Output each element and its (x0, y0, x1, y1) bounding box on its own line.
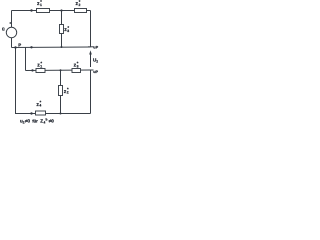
wire top rail (12, 10, 91, 12)
terminal tick upper output (88, 46, 94, 48)
polarity dot above source (9, 22, 11, 24)
node dot top rail Z3 junction (60, 9, 62, 11)
svg-text:≠0: ≠0 (49, 119, 55, 124)
wire node P drop to bottom rail (15, 48, 17, 114)
resistor Z1' (second rail left box) (36, 69, 45, 73)
resistor Z1* (top left box) (37, 9, 50, 13)
svg-text:für: für (32, 119, 38, 124)
node dot second rail (31, 69, 33, 71)
svg-text:*: * (40, 0, 42, 4)
svg-text:b: b (46, 117, 48, 121)
svg-text:P: P (96, 70, 99, 74)
svg-text:ü: ü (2, 26, 5, 31)
resistor Z2' (vertical box lower) (59, 86, 63, 96)
wire middle rail (12, 46, 91, 49)
node dot bottom rail Z2 junction (60, 113, 62, 115)
wire bottom rail (15, 113, 91, 115)
svg-text:P: P (18, 42, 21, 47)
svg-text:*: * (77, 60, 79, 65)
svg-text:2: 2 (96, 60, 98, 64)
terminal tick lower output (88, 69, 94, 71)
wire right side upper vertical (90, 11, 92, 47)
node dot bottom rail left (30, 112, 32, 114)
node dot top rail left (30, 9, 32, 11)
wire source bottom lead (11, 38, 13, 48)
wire second rail (26, 69, 91, 72)
svg-text:≠0: ≠0 (25, 119, 31, 124)
wire Z3* branch vertical (61, 11, 63, 48)
wire source top lead (11, 11, 13, 28)
wire Z2* branch vertical (60, 70, 62, 114)
svg-text:P: P (96, 45, 99, 49)
node dot middle rail Z3 junction (61, 46, 63, 48)
source U1 circle (6, 27, 16, 37)
resistor Z3' (second rail right box) (72, 69, 81, 73)
wire drop to second rail (25, 48, 27, 71)
voltage arrow U2 (89, 50, 92, 67)
node P dot (14, 46, 16, 48)
node dot middle rail (30, 46, 32, 48)
resistor Z3* (vertical shunt box) (60, 25, 64, 34)
svg-text:*: * (40, 100, 42, 105)
resistor Z2* (top right box) (75, 9, 87, 13)
node dot second rail Z2 junction (60, 69, 62, 71)
resistor Z4 (bottom rail box) (36, 111, 46, 115)
wire right side lower vertical (90, 70, 92, 114)
svg-text:*: * (79, 0, 81, 4)
